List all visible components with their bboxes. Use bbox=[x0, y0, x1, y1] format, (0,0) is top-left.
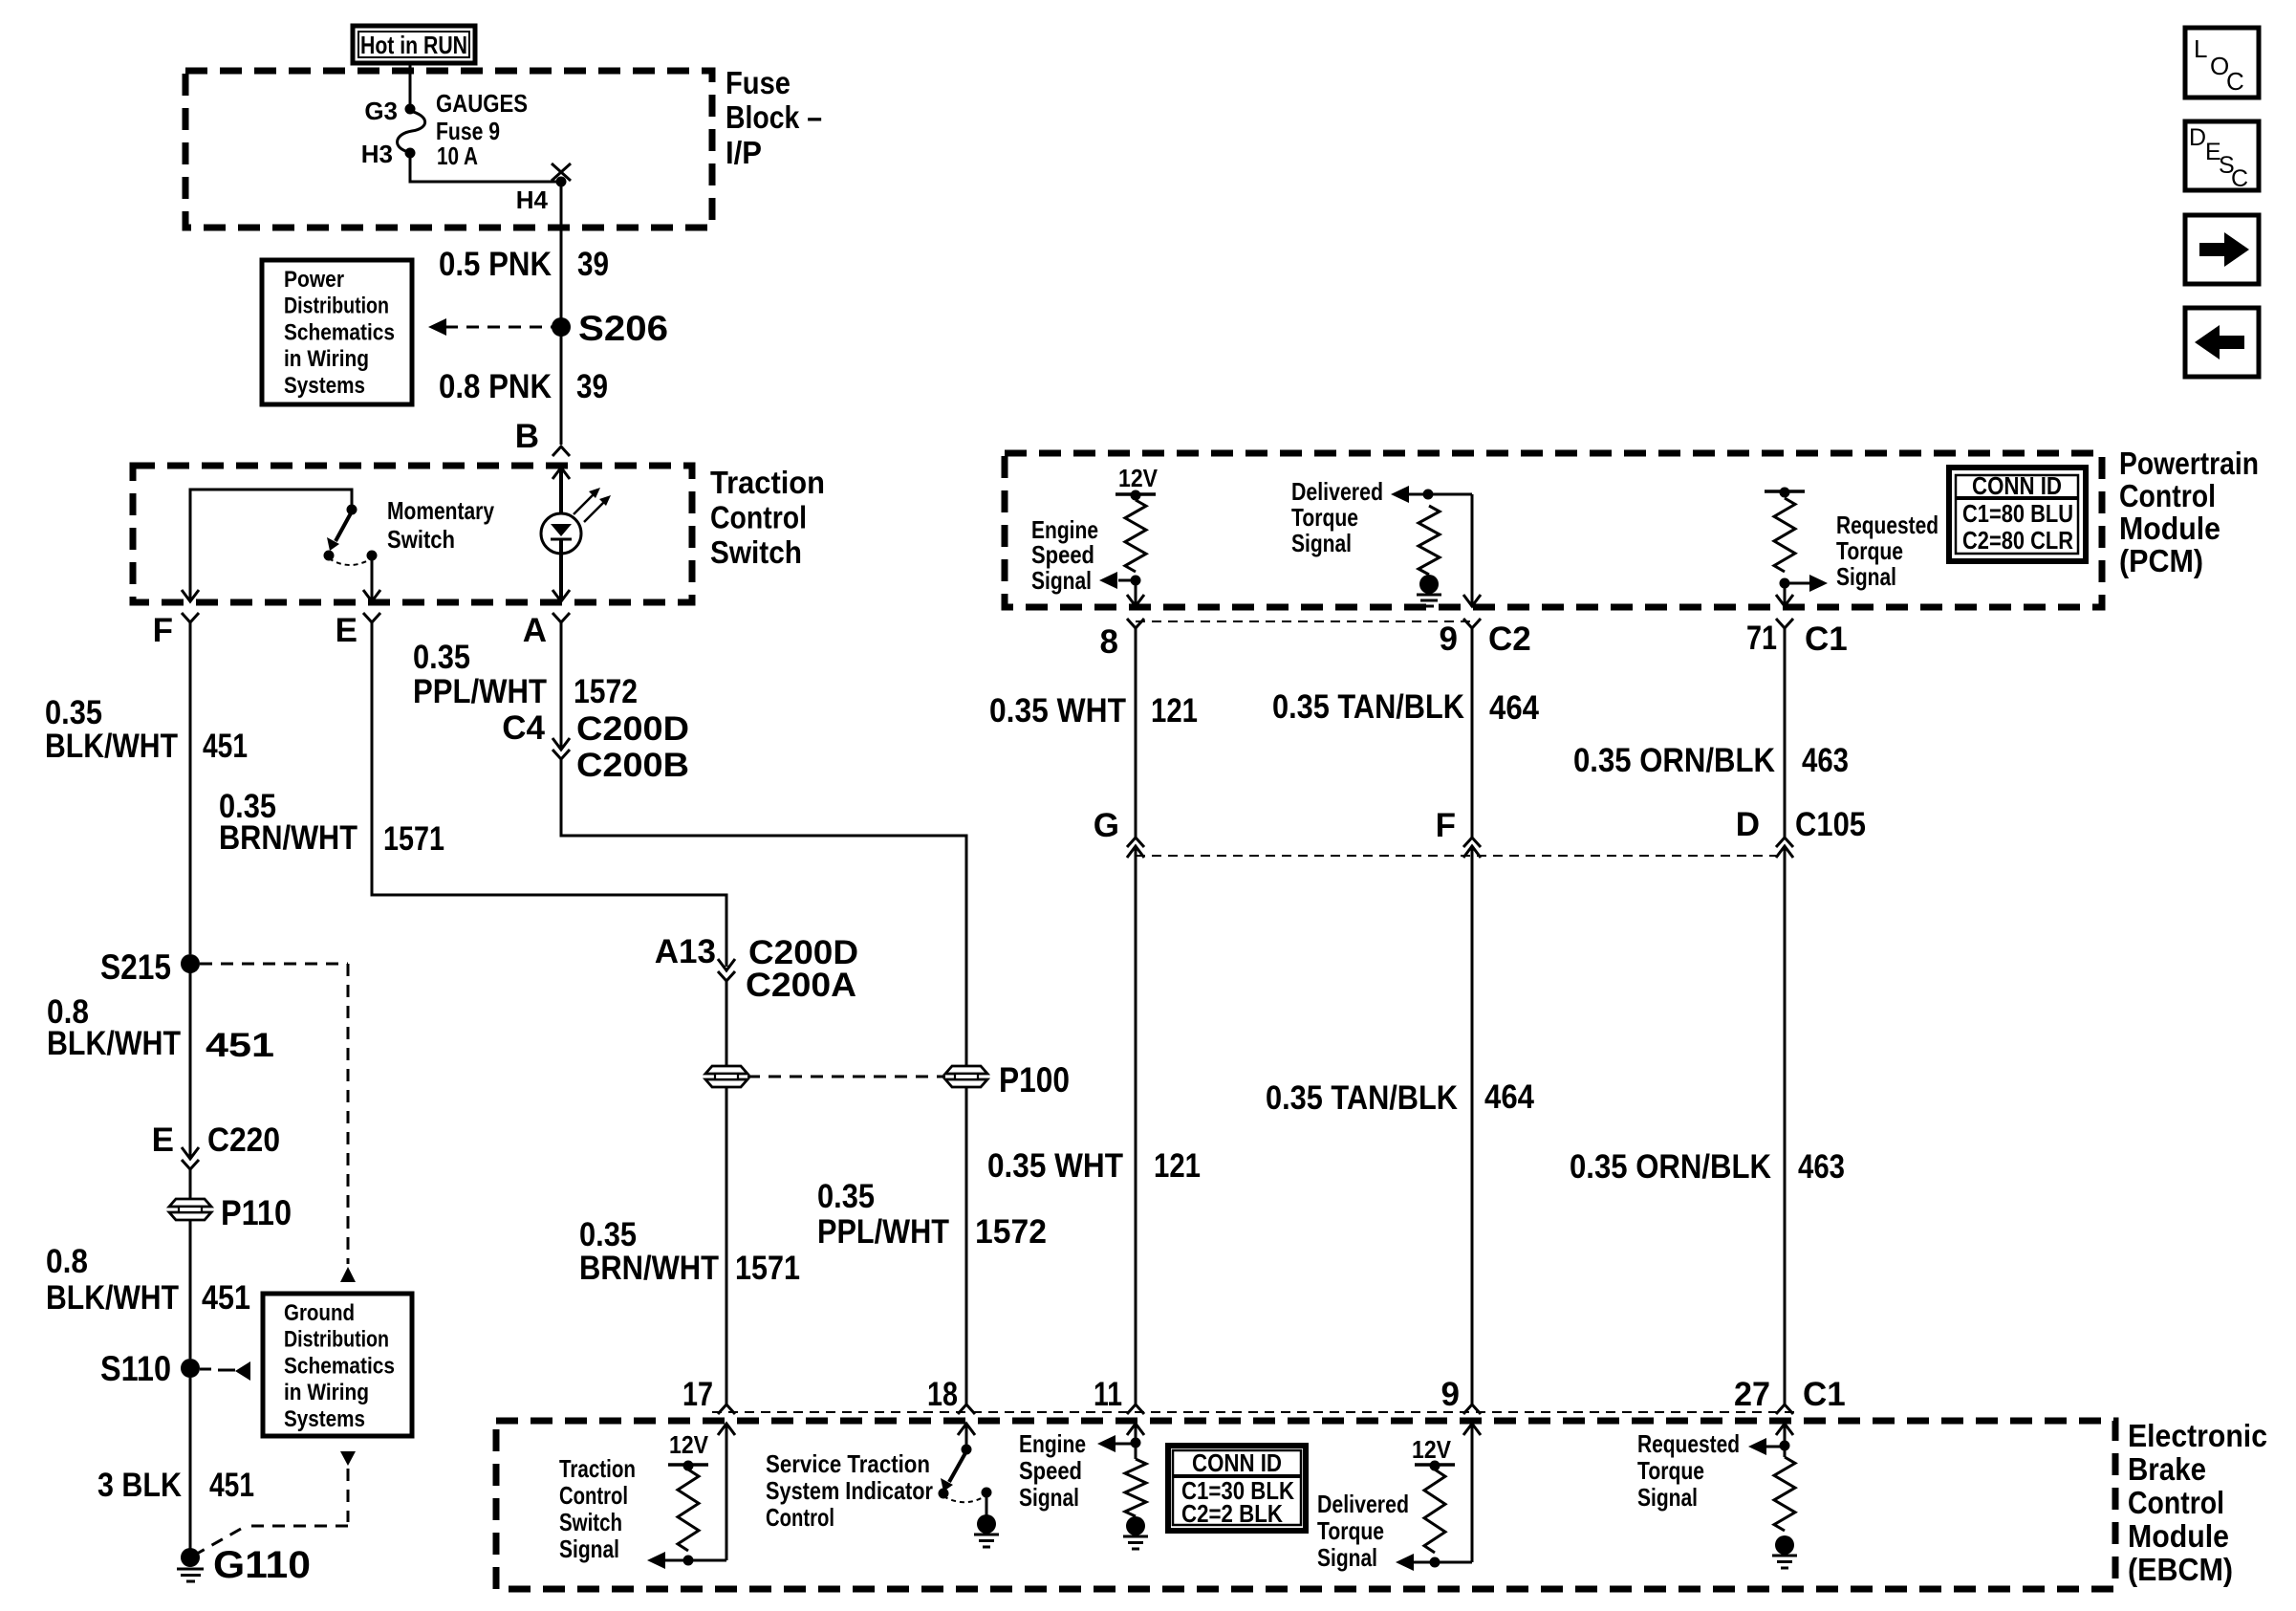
EBCM pin 17 arrow and wire bbox=[718, 1424, 735, 1435]
svg-text:0.5 PNK: 0.5 PNK bbox=[439, 246, 552, 283]
svg-text:1571: 1571 bbox=[735, 1250, 800, 1287]
momentary switch arm bbox=[336, 512, 352, 541]
EBCM pin chevrons and labels bbox=[718, 1404, 735, 1414]
svg-text:Distribution: Distribution bbox=[284, 1327, 389, 1353]
svg-text:451: 451 bbox=[206, 1027, 274, 1064]
svg-text:BLK/WHT: BLK/WHT bbox=[47, 1025, 181, 1062]
svg-text:Engine: Engine bbox=[1019, 1429, 1086, 1458]
svg-text:G3: G3 bbox=[364, 97, 398, 125]
svg-text:Speed: Speed bbox=[1031, 540, 1094, 569]
wire A13 to P100 left bbox=[726, 981, 728, 1067]
svg-text:C2: C2 bbox=[1488, 620, 1531, 658]
svg-text:A: A bbox=[523, 612, 547, 649]
splice S110 bbox=[181, 1359, 200, 1378]
connector chevron at B bbox=[552, 446, 570, 456]
connector C105 pin G bbox=[1127, 838, 1144, 847]
fuse F9 10A GAUGES bbox=[398, 111, 425, 152]
svg-text:0.8 PNK: 0.8 PNK bbox=[439, 368, 552, 405]
svg-text:463: 463 bbox=[1802, 742, 1849, 779]
svg-text:C4: C4 bbox=[502, 709, 545, 747]
dashed reference S215 to Ground box bbox=[200, 963, 348, 966]
svg-text:Signal: Signal bbox=[1836, 562, 1896, 591]
svg-text:0.35 WHT: 0.35 WHT bbox=[989, 692, 1126, 729]
PCM delivered torque resistor to ground bbox=[1419, 506, 1440, 575]
svg-text:9: 9 bbox=[1440, 620, 1458, 658]
svg-text:Switch: Switch bbox=[559, 1508, 622, 1536]
wire F down left column 451 bbox=[189, 622, 192, 954]
dashed reference from S206 to Power box bbox=[445, 326, 552, 329]
wire ORN/BLK 463 to EBCM pin 27 bbox=[1784, 846, 1787, 1404]
svg-text:12V: 12V bbox=[1118, 464, 1159, 492]
svg-text:1572: 1572 bbox=[574, 673, 638, 710]
svg-text:12V: 12V bbox=[1412, 1435, 1452, 1464]
svg-text:0.35 TAN/BLK: 0.35 TAN/BLK bbox=[1272, 688, 1464, 726]
svg-text:(EBCM): (EBCM) bbox=[2128, 1552, 2233, 1587]
fuse block I/P dashed box bbox=[185, 71, 712, 228]
svg-text:Traction: Traction bbox=[559, 1454, 636, 1483]
terminal H4 with X mark bbox=[556, 177, 567, 187]
svg-text:9: 9 bbox=[1441, 1376, 1460, 1413]
svg-text:11: 11 bbox=[1094, 1376, 1122, 1413]
svg-text:BRN/WHT: BRN/WHT bbox=[579, 1250, 719, 1287]
svg-text:BLK/WHT: BLK/WHT bbox=[45, 728, 178, 765]
EBCM CONN ID box bbox=[1168, 1446, 1306, 1531]
svg-text:BRN/WHT: BRN/WHT bbox=[219, 819, 357, 857]
splice S206 bbox=[552, 317, 571, 337]
svg-text:0.8: 0.8 bbox=[46, 1243, 88, 1280]
svg-text:18: 18 bbox=[927, 1376, 958, 1413]
svg-text:Control: Control bbox=[2119, 478, 2216, 513]
svg-text:in Wiring: in Wiring bbox=[284, 346, 369, 372]
wire H3 to H4 bbox=[410, 155, 559, 182]
svg-text:F: F bbox=[1436, 807, 1456, 844]
previous page arrow icon bbox=[2185, 308, 2259, 377]
next page arrow icon bbox=[2185, 215, 2259, 284]
PCM requested torque resistor bbox=[1774, 498, 1795, 572]
Powertrain Control Module dashed box bbox=[1005, 453, 2102, 607]
svg-text:Speed: Speed bbox=[1019, 1456, 1082, 1485]
DESC icon box bbox=[2185, 121, 2259, 190]
svg-text:H3: H3 bbox=[361, 140, 393, 168]
svg-text:Ground: Ground bbox=[284, 1300, 355, 1326]
svg-text:Switch: Switch bbox=[387, 525, 455, 554]
svg-text:Brake: Brake bbox=[2128, 1451, 2206, 1487]
svg-text:Control: Control bbox=[766, 1503, 834, 1532]
EBCM pin 9 resistor bbox=[1424, 1469, 1445, 1553]
connector C4 C200D C200B bbox=[552, 738, 570, 750]
EBCM pin 11 resistor and ground bbox=[1135, 1445, 1137, 1459]
wire 121 PCM to C105, label 0.35 WHT 121 bbox=[1135, 628, 1137, 838]
svg-text:Service Traction: Service Traction bbox=[766, 1449, 930, 1478]
svg-text:P100: P100 bbox=[999, 1060, 1070, 1099]
svg-text:Signal: Signal bbox=[559, 1535, 619, 1563]
svg-text:Module: Module bbox=[2128, 1518, 2229, 1554]
svg-text:C2=2 BLK: C2=2 BLK bbox=[1181, 1499, 1283, 1528]
svg-text:121: 121 bbox=[1151, 692, 1198, 729]
svg-text:463: 463 bbox=[1798, 1148, 1845, 1186]
svg-text:Signal: Signal bbox=[1031, 566, 1092, 595]
svg-text:Requested: Requested bbox=[1836, 511, 1939, 539]
svg-text:F: F bbox=[153, 612, 173, 649]
svg-text:27: 27 bbox=[1734, 1376, 1770, 1413]
svg-text:C: C bbox=[2231, 165, 2248, 192]
svg-text:C: C bbox=[2226, 67, 2244, 96]
wire PPL/WHT to EBCM pin 18, label 0.35 PPL/WHT 1572 bbox=[965, 1086, 968, 1404]
svg-text:System Indicator: System Indicator bbox=[766, 1476, 933, 1505]
Traction Control Switch dashed box bbox=[133, 466, 692, 602]
svg-text:G: G bbox=[1094, 807, 1119, 844]
momentary switch feed wire from pin F bbox=[190, 490, 352, 601]
svg-text:I/P: I/P bbox=[726, 135, 762, 170]
wire TAN/BLK 464 to EBCM pin 9 bbox=[1471, 846, 1474, 1404]
svg-text:Traction: Traction bbox=[710, 465, 825, 500]
PCM pin chevrons 8 9 71 bbox=[1127, 619, 1144, 628]
svg-text:Signal: Signal bbox=[1637, 1483, 1698, 1512]
connector C105 pin D bbox=[1776, 838, 1793, 847]
EBCM service traction switch arm bbox=[949, 1451, 966, 1482]
connector A13 C200D C200A bbox=[718, 959, 735, 970]
svg-text:Control: Control bbox=[2128, 1485, 2224, 1520]
EBCM pin 18 arrow and switch bbox=[958, 1424, 975, 1435]
wire 464 PCM to C105, label 0.35 TAN/BLK 464 bbox=[1471, 628, 1474, 838]
svg-text:8: 8 bbox=[1100, 623, 1118, 661]
svg-text:P110: P110 bbox=[221, 1193, 292, 1232]
svg-text:CONN ID: CONN ID bbox=[1192, 1448, 1282, 1477]
svg-text:S215: S215 bbox=[100, 947, 171, 987]
svg-text:Fuse: Fuse bbox=[726, 65, 791, 100]
svg-text:E: E bbox=[152, 1121, 174, 1159]
svg-text:L: L bbox=[2194, 34, 2207, 63]
svg-text:0.35 ORN/BLK: 0.35 ORN/BLK bbox=[1573, 742, 1775, 779]
svg-text:17: 17 bbox=[682, 1376, 713, 1413]
svg-text:Control: Control bbox=[710, 500, 807, 535]
svg-text:1572: 1572 bbox=[975, 1213, 1047, 1251]
svg-text:Power: Power bbox=[284, 267, 344, 293]
svg-text:3 BLK: 3 BLK bbox=[97, 1467, 182, 1504]
svg-text:H4: H4 bbox=[516, 185, 549, 214]
svg-text:0.35: 0.35 bbox=[579, 1216, 637, 1253]
PCM delivered torque arrow and node bbox=[1391, 486, 1409, 503]
svg-text:451: 451 bbox=[209, 1467, 254, 1504]
svg-text:C200A: C200A bbox=[746, 967, 856, 1004]
EBCM requested torque node and arrow bbox=[1780, 1441, 1790, 1451]
svg-text:Module: Module bbox=[2119, 511, 2220, 546]
svg-text:B: B bbox=[515, 418, 539, 455]
svg-text:Hot in RUN: Hot in RUN bbox=[360, 31, 467, 59]
PCM CONN ID box bbox=[1949, 468, 2086, 561]
Electronic Brake Control Module dashed box bbox=[496, 1421, 2115, 1589]
wire C220 to P110 bbox=[189, 1169, 192, 1200]
svg-text:Momentary: Momentary bbox=[387, 496, 494, 525]
svg-text:BLK/WHT: BLK/WHT bbox=[46, 1279, 179, 1317]
svg-text:Block –: Block – bbox=[726, 99, 822, 135]
wire 463 PCM to C105, label 0.35 ORN/BLK 463 bbox=[1784, 628, 1787, 838]
wire below S215, label 0.8 BLK/WHT 451 bbox=[189, 966, 192, 1158]
connector C105 pin F bbox=[1463, 838, 1481, 847]
svg-text:Distribution: Distribution bbox=[284, 294, 389, 319]
svg-text:Torque: Torque bbox=[1836, 536, 1903, 565]
splice S215 bbox=[181, 954, 200, 973]
svg-text:39: 39 bbox=[576, 368, 608, 405]
svg-text:Signal: Signal bbox=[1019, 1483, 1079, 1512]
LED wire down to pin A bbox=[559, 540, 563, 600]
svg-text:S110: S110 bbox=[100, 1349, 171, 1388]
svg-text:Delivered: Delivered bbox=[1291, 477, 1383, 506]
dashed link between P100 grommets bbox=[747, 1076, 945, 1078]
wire S110 to G110, label 3 BLK 451 bbox=[189, 1378, 192, 1549]
svg-text:G110: G110 bbox=[213, 1544, 311, 1586]
svg-text:C1: C1 bbox=[1803, 1376, 1846, 1413]
Power Distribution Schematics reference box bbox=[262, 260, 412, 404]
svg-text:C1=80 BLU: C1=80 BLU bbox=[1962, 499, 2073, 528]
wire from Hot in RUN to fuse G3 bbox=[409, 63, 412, 107]
Ground Distribution Schematics reference box bbox=[263, 1294, 412, 1436]
svg-text:Systems: Systems bbox=[284, 1406, 365, 1432]
wire contact to pin E bbox=[371, 557, 374, 600]
EBCM pin 9 node and arrow bbox=[1430, 1557, 1440, 1568]
wire H4 down to S206, label 0.5 PNK 39 bbox=[560, 184, 563, 325]
svg-text:1571: 1571 bbox=[383, 820, 444, 858]
EBCM engine speed node and arrow bbox=[1131, 1438, 1141, 1448]
pass-through grommet P100 left bbox=[705, 1066, 747, 1074]
svg-text:Powertrain: Powertrain bbox=[2119, 446, 2259, 481]
pass-through grommet P110 bbox=[169, 1199, 211, 1207]
svg-text:71: 71 bbox=[1746, 620, 1777, 657]
EBCM pin 27 resistor and ground bbox=[1784, 1448, 1787, 1457]
wire E down, label 0.35 BRN/WHT 1571 bbox=[371, 622, 374, 893]
PCM pin 8 wire and arrow bbox=[1135, 582, 1137, 607]
svg-text:0.35: 0.35 bbox=[45, 694, 102, 731]
wire E elbow to x760 bbox=[372, 893, 726, 967]
TCS pin chevrons F E A bbox=[182, 613, 199, 622]
svg-text:C200D: C200D bbox=[576, 710, 689, 748]
LED lightning arrows bbox=[574, 491, 596, 514]
svg-text:Torque: Torque bbox=[1291, 503, 1358, 532]
svg-text:S206: S206 bbox=[578, 309, 668, 348]
LOC icon box bbox=[2185, 28, 2259, 98]
svg-text:121: 121 bbox=[1154, 1147, 1201, 1185]
wire A elbow to x1011 bbox=[561, 759, 966, 1067]
EBCM pin 17 resistor bbox=[678, 1469, 699, 1551]
svg-text:C1: C1 bbox=[1805, 620, 1848, 658]
svg-text:Control: Control bbox=[559, 1481, 628, 1510]
EBCM connector dashed line bbox=[712, 1411, 1797, 1413]
PCM requested torque 12V bar bbox=[1765, 490, 1805, 493]
svg-text:0.35: 0.35 bbox=[817, 1178, 875, 1215]
svg-text:Delivered: Delivered bbox=[1317, 1490, 1409, 1518]
svg-text:C2=80 CLR: C2=80 CLR bbox=[1962, 526, 2073, 555]
svg-text:PPL/WHT: PPL/WHT bbox=[817, 1213, 949, 1251]
momentary switch pivot bbox=[347, 505, 357, 515]
svg-text:Signal: Signal bbox=[1291, 529, 1352, 557]
wire S206 to B, label 0.8 PNK 39 bbox=[560, 329, 563, 445]
svg-text:0.35 TAN/BLK: 0.35 TAN/BLK bbox=[1266, 1079, 1458, 1117]
svg-text:12V: 12V bbox=[669, 1430, 709, 1459]
svg-text:Schematics: Schematics bbox=[284, 1353, 395, 1379]
svg-text:Switch: Switch bbox=[710, 534, 802, 570]
wire BRN/WHT to EBCM pin 17, label 0.35 BRN/WHT 1571 bbox=[726, 1086, 728, 1404]
svg-text:PPL/WHT: PPL/WHT bbox=[413, 673, 547, 710]
EBCM pin 27 arrow and wire bbox=[1776, 1424, 1793, 1435]
svg-text:C220: C220 bbox=[207, 1121, 280, 1159]
svg-text:Signal: Signal bbox=[1317, 1543, 1377, 1572]
svg-text:464: 464 bbox=[1489, 689, 1539, 727]
svg-text:Torque: Torque bbox=[1637, 1456, 1704, 1485]
svg-text:CONN ID: CONN ID bbox=[1972, 471, 2062, 500]
wire A down to C4 connector, label 0.35 PPL/WHT 1572 bbox=[560, 622, 563, 749]
PCM pin 9 wire and arrow bbox=[1471, 494, 1474, 607]
ground G110 bbox=[181, 1548, 200, 1567]
EBCM pin 9 arrow and wire bbox=[1463, 1424, 1481, 1435]
TCS indicator LED bbox=[541, 513, 581, 554]
fuse terminal H3 bbox=[405, 148, 416, 159]
svg-text:Systems: Systems bbox=[284, 373, 365, 399]
svg-text:0.35: 0.35 bbox=[413, 639, 470, 676]
svg-text:Requested: Requested bbox=[1637, 1429, 1740, 1458]
momentary switch contacts bbox=[324, 551, 335, 561]
svg-text:C200B: C200B bbox=[576, 747, 689, 784]
connector E C220 bbox=[182, 1147, 199, 1159]
svg-text:464: 464 bbox=[1484, 1078, 1534, 1116]
svg-text:E: E bbox=[336, 612, 357, 649]
EBCM pin 17 node and arrow bbox=[683, 1556, 694, 1566]
svg-text:D: D bbox=[1736, 806, 1760, 843]
C105 connector dashed line bbox=[1136, 855, 1786, 857]
dashed stub from S110 bbox=[200, 1368, 211, 1371]
PCM engine speed resistor bbox=[1125, 500, 1146, 572]
wire P110 to S110, label 0.8 BLK/WHT 451 bbox=[189, 1219, 192, 1359]
EBCM pin 11 arrow and wire bbox=[1127, 1424, 1144, 1435]
TCS pin B arrow into box bbox=[552, 468, 570, 479]
svg-text:GAUGES: GAUGES bbox=[436, 89, 528, 118]
PCM engine speed signal node bbox=[1131, 576, 1141, 586]
PCM requested torque node and arrow bbox=[1780, 578, 1790, 589]
momentary switch dashed arc bbox=[329, 558, 372, 565]
svg-text:Electronic: Electronic bbox=[2128, 1418, 2267, 1453]
pass-through grommet P100 right bbox=[945, 1066, 987, 1074]
svg-text:0.35 WHT: 0.35 WHT bbox=[987, 1147, 1123, 1185]
dashed reference Ground box to G110 bbox=[340, 1451, 356, 1466]
EBCM switch ground bbox=[986, 1494, 988, 1515]
svg-text:10 A: 10 A bbox=[437, 142, 478, 170]
PCM pin 71 wire and arrow bbox=[1784, 585, 1787, 607]
svg-text:(PCM): (PCM) bbox=[2119, 543, 2203, 578]
fuse terminal G3 bbox=[405, 104, 416, 115]
svg-text:D: D bbox=[2189, 124, 2206, 151]
Hot in RUN box bbox=[353, 26, 475, 63]
svg-text:39: 39 bbox=[577, 246, 609, 283]
PCM C2 connector dashed line bbox=[1136, 620, 1472, 622]
wire WHT 121 to EBCM pin 11 bbox=[1135, 846, 1137, 1404]
svg-text:451: 451 bbox=[202, 1279, 250, 1317]
svg-text:in Wiring: in Wiring bbox=[284, 1380, 369, 1405]
svg-text:0.35 ORN/BLK: 0.35 ORN/BLK bbox=[1570, 1148, 1771, 1186]
svg-text:C105: C105 bbox=[1795, 806, 1866, 843]
EBCM switch contacts and dashed arc bbox=[939, 1489, 949, 1499]
svg-text:451: 451 bbox=[203, 728, 248, 765]
svg-text:A13: A13 bbox=[655, 933, 716, 970]
svg-text:Schematics: Schematics bbox=[284, 319, 395, 345]
svg-text:Torque: Torque bbox=[1317, 1516, 1384, 1545]
